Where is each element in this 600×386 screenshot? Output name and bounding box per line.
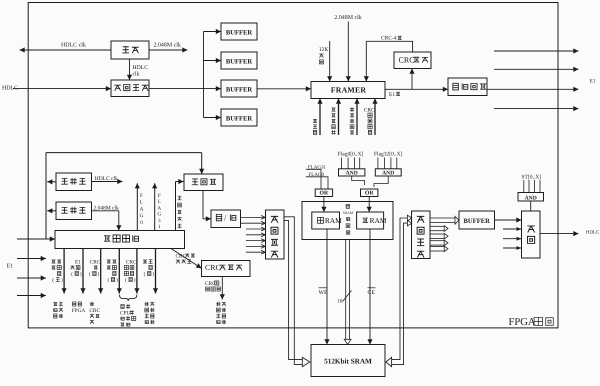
svg-text:CPU: CPU (120, 310, 130, 316)
svg-text:HDLC clk: HDLC clk (95, 176, 118, 182)
svg-text:CRC: CRC (126, 259, 137, 265)
svg-text:A: A (140, 206, 144, 212)
svg-text:HDLC: HDLC (586, 230, 599, 236)
svg-text:G: G (140, 213, 144, 219)
svg-text:BUFFER: BUFFER (226, 115, 253, 122)
svg-text:OR: OR (320, 191, 330, 197)
svg-text:FPGA: FPGA (72, 308, 86, 314)
svg-text:CRC: CRC (90, 259, 101, 265)
svg-text:CRC-4: CRC-4 (381, 36, 397, 42)
svg-text:2.048M clk: 2.048M clk (94, 206, 120, 212)
svg-text:L: L (158, 199, 161, 205)
svg-text:AND: AND (382, 171, 394, 177)
svg-text:BUFFER: BUFFER (464, 218, 491, 225)
svg-text:F: F (140, 193, 143, 199)
svg-text:WE: WE (319, 290, 328, 296)
svg-text:E1: E1 (590, 78, 596, 84)
svg-text:): ) (80, 271, 82, 277)
svg-text:Flag0[0..X]: Flag0[0..X] (338, 151, 364, 157)
svg-text:E1: E1 (7, 264, 14, 270)
svg-text:): ) (134, 277, 136, 283)
svg-text:ST[0..X]: ST[0..X] (522, 175, 542, 181)
svg-text:BUFFER: BUFFER (226, 86, 253, 93)
svg-text:(: ( (89, 271, 91, 277)
svg-text:2.048M clk: 2.048M clk (154, 41, 181, 48)
svg-text:(: ( (107, 277, 109, 283)
svg-text:BUFFER: BUFFER (226, 29, 253, 36)
svg-text:(: ( (125, 277, 127, 283)
svg-text:E1: E1 (389, 92, 395, 98)
svg-text:12K: 12K (319, 47, 330, 53)
svg-text:3: 3 (158, 218, 161, 224)
svg-text:OR: OR (365, 191, 375, 197)
svg-text:(: ( (52, 277, 54, 283)
svg-text:Flag32[0..X]: Flag32[0..X] (374, 151, 403, 157)
svg-text:HDLC: HDLC (133, 65, 149, 71)
svg-text:): ) (152, 271, 154, 277)
svg-text:AND: AND (346, 171, 358, 177)
svg-text:L: L (140, 200, 143, 206)
svg-text:CRC: CRC (89, 308, 100, 314)
svg-text:FRAMER: FRAMER (331, 86, 367, 95)
svg-text:E1: E1 (75, 259, 81, 265)
svg-text:clk: clk (133, 72, 140, 78)
svg-text:(: ( (144, 271, 146, 277)
svg-text:SRAM: SRAM (343, 211, 354, 215)
svg-text:(: ( (71, 271, 73, 277)
svg-text:): ) (116, 277, 118, 283)
svg-text:CRC: CRC (364, 107, 375, 113)
svg-text:CRC: CRC (399, 55, 415, 64)
svg-text:RAM: RAM (325, 216, 342, 225)
svg-text:BUFFER: BUFFER (226, 58, 253, 65)
svg-text:CE: CE (368, 290, 376, 296)
svg-text:HDLC clk: HDLC clk (61, 41, 86, 48)
svg-text:1: 1 (158, 224, 161, 230)
svg-text:CRC: CRC (176, 253, 187, 259)
svg-text:): ) (98, 271, 100, 277)
svg-text:): ) (61, 277, 63, 283)
svg-text:2.048M clk: 2.048M clk (334, 14, 361, 21)
svg-text:F: F (158, 193, 161, 199)
svg-text:A: A (157, 205, 161, 211)
svg-text:RAM: RAM (370, 216, 387, 225)
svg-text:16: 16 (337, 299, 343, 305)
svg-text:FPGA: FPGA (509, 317, 536, 328)
svg-text:G: G (157, 212, 161, 218)
svg-text:AND: AND (525, 195, 537, 201)
svg-text:CRC: CRC (205, 263, 221, 272)
svg-text:512Kbit SRAM: 512Kbit SRAM (324, 357, 372, 365)
svg-text:0: 0 (140, 220, 143, 226)
